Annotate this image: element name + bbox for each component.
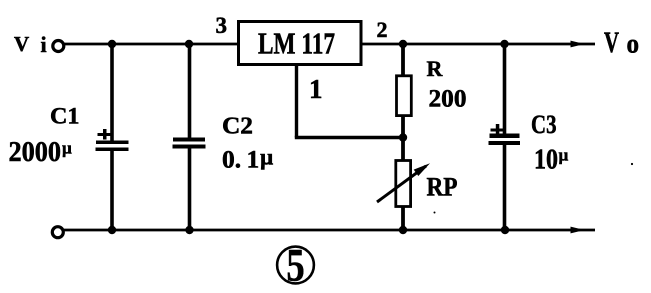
pin label 1: [309, 74, 323, 104]
wire C2 branch lower: [188, 148, 192, 231]
label C1: [50, 104, 80, 129]
figure number circled 5: [277, 239, 314, 291]
wire C3 branch lower: [503, 144, 507, 230]
svg-text:1: 1: [309, 74, 323, 104]
svg-text:V: V: [604, 27, 619, 59]
wire RP branch upper: [401, 138, 405, 162]
label RP: [427, 173, 458, 202]
pin label 3: [216, 13, 228, 38]
capacitor C3: [489, 134, 521, 146]
wire RP branch lower: [401, 206, 405, 230]
value label 10u: [534, 143, 569, 175]
svg-text:V: V: [14, 32, 29, 56]
resistor R: [397, 76, 412, 116]
wire R branch lower: [401, 116, 405, 138]
label Vo: [604, 27, 639, 59]
label R: [427, 56, 444, 81]
arrow to Vo: [571, 41, 585, 48]
node output terminal (bottom left): [52, 227, 63, 238]
value label 2000u: [9, 136, 73, 168]
svg-text:LM 117: LM 117: [258, 26, 335, 61]
label C3: [531, 110, 557, 139]
wire C3 branch upper: [503, 44, 507, 134]
junction bottom RP: [399, 226, 407, 234]
junction bottom C1: [108, 226, 116, 234]
capacitor C1: [96, 141, 129, 152]
svg-text:i: i: [41, 32, 47, 57]
svg-text:10: 10: [534, 143, 558, 175]
junction node ADJ (R / RP / pin1): [399, 133, 407, 141]
svg-text:2: 2: [377, 17, 388, 42]
junction top C3: [500, 40, 508, 48]
junction bottom C2: [185, 226, 193, 234]
svg-text:5: 5: [286, 239, 304, 291]
wire C2 branch upper: [188, 44, 192, 138]
potentiometer RP: [396, 161, 411, 207]
capacitor C2: [173, 138, 206, 149]
junction top C1: [108, 40, 116, 48]
scan speck right margin: [631, 163, 633, 165]
wire C1 branch upper: [110, 44, 114, 141]
scan speck near RP bottom: [434, 212, 436, 214]
svg-text:3: 3: [216, 13, 228, 38]
junction top C2: [185, 40, 193, 48]
svg-text:µ: µ: [62, 139, 72, 158]
svg-text:o: o: [626, 29, 639, 59]
svg-text:200: 200: [429, 86, 467, 113]
svg-text:2000: 2000: [9, 136, 62, 168]
polarity plus of C1: [98, 129, 112, 140]
junction bottom C3: [501, 226, 509, 234]
svg-text:C1: C1: [50, 104, 80, 129]
svg-text:C3: C3: [531, 110, 557, 139]
svg-text:C2: C2: [222, 114, 253, 140]
wire top rail right (LM117 pin2 to Vo): [362, 43, 595, 46]
arrow bottom rail: [571, 227, 585, 234]
svg-text:µ: µ: [260, 145, 273, 170]
polarity plus of C3: [491, 124, 505, 135]
junction top R: [399, 40, 407, 48]
label C2: [222, 114, 253, 140]
pin label 2: [377, 17, 388, 42]
wire pin1 horizontal to RP node: [295, 136, 403, 139]
arrow of RP: [377, 163, 430, 202]
svg-text:RP: RP: [427, 173, 458, 202]
wire bottom rail: [64, 229, 596, 232]
wire LM117 pin1 down: [295, 64, 298, 138]
wire top rail left (Vi to LM117 pin3): [64, 43, 240, 46]
node Vi input terminal: [53, 41, 64, 52]
svg-text:0.: 0.: [222, 144, 241, 173]
value label 0.1u: [222, 144, 273, 173]
svg-text:µ: µ: [559, 146, 569, 165]
svg-text:R: R: [427, 56, 444, 81]
svg-text:1: 1: [247, 144, 260, 173]
value label 200: [429, 86, 467, 113]
wire R branch upper: [401, 44, 405, 76]
wire C1 branch lower: [110, 151, 114, 231]
op-amp regulator U1 LM117 box: [239, 22, 362, 65]
label Vi: [14, 32, 47, 57]
